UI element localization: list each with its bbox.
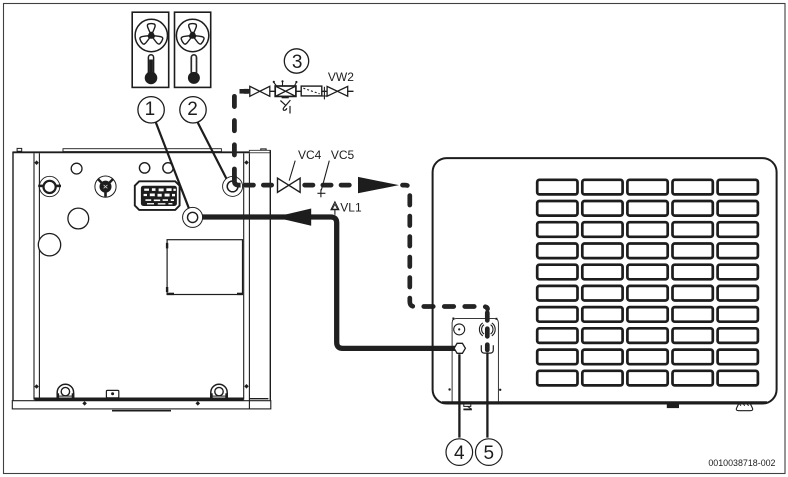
outdoor unit: connection panel [452,319,498,403]
indoor unit: two small circles top-middle [139,163,173,173]
callout circle 3 [284,49,308,73]
measuring tick after check valve [322,87,328,100]
valve VC4 [278,178,301,192]
air vent symbol VL1 [331,202,339,215]
callout line 4 [458,354,460,437]
indoor unit: wall screw diamonds [34,160,248,389]
svg-text:3: 3 [292,52,303,73]
outdoor unit: black foot [667,404,679,408]
indoor unit: foot left [57,384,73,398]
label VW2 [328,70,354,84]
indoor unit: top-left notch [17,148,22,151]
indoor unit: bottom flange [12,401,271,409]
port 2 (heating return connection) [223,176,243,196]
indoor unit: left wall lines [34,153,39,399]
indoor unit: flange diamonds [82,401,200,406]
indoor unit: left outer edge [12,152,14,400]
sign box 1 (fan + thermometer warm) [132,12,169,87]
document number [708,458,775,468]
solid pipe (flow) [202,217,456,348]
pipe group 3: thick start stub [240,89,252,94]
svg-text:5: 5 [484,443,495,464]
flow arrow on dashed pipe (right) [358,177,399,193]
flow arrow on solid pipe (left) [275,209,312,226]
indoor unit: knurled knob [95,176,116,197]
fan icon 2 [176,19,208,51]
outdoor unit: bottom edge accent [442,401,767,404]
sign box 2 (fan + thermometer cold) [175,12,211,87]
svg-text:0010038718-002: 0010038718-002 [708,458,775,468]
outdoor unit: round port with dot [454,324,465,335]
drain symbol under filter [280,100,290,113]
valve VW2 [327,86,348,96]
indoor unit: right panel handle [261,149,266,150]
indoor unit: right panel top [249,150,270,153]
leader line 1 [156,122,191,214]
indoor unit: foot right [211,384,227,398]
port 1 (heating flow connection) [183,207,203,227]
indoor unit: capped port with tabs [38,176,61,196]
indoor unit: top cap strip [63,149,221,152]
callout line 5 [486,353,488,437]
leader line 2 [198,122,230,184]
label VL1 [340,200,362,214]
indoor unit: top edge [12,151,249,153]
dashed pipe: arrow to outdoor unit [403,185,488,309]
label VC4 [289,148,321,181]
indoor unit: large circle lower-left [38,234,60,256]
indoor unit: medium circle [68,208,89,229]
indoor unit: bottom thick edge [35,398,244,401]
outdoor unit body [433,158,777,403]
indoor unit: inner rectangle panel [167,240,242,295]
dashed pipe: port 2 to VC4 [241,183,278,188]
hex fitting at solid pipe end [454,343,465,353]
svg-text:VL1: VL1 [340,200,362,214]
dashed pipe: corner into port 2 [234,176,240,185]
svg-text:1: 1 [145,99,156,120]
svg-text:VC4: VC4 [298,148,322,162]
outdoor unit: slat grille [537,180,758,386]
outdoor unit: adjustable foot [736,404,752,411]
measuring point VC5 cross [317,189,325,197]
fan icon 1 [135,19,167,51]
callout circle 4 [446,439,473,466]
valve (group 3 left shutoff) [250,86,270,96]
svg-text:4: 4 [454,443,465,464]
indoor unit: right wall lines [244,153,269,408]
indoor unit: electrical connector [135,181,180,210]
filter / dirt trap [273,80,298,98]
callout circle 2 [180,97,206,123]
u-clamp under grommet [481,345,493,353]
svg-text:VC5: VC5 [331,148,355,162]
grommet dash overlay [485,310,490,350]
outdoor unit: drain mark [463,404,472,410]
dashed pipe: drop from group 3 to port 2 [234,91,248,177]
svg-text:VW2: VW2 [328,70,354,84]
dashed pipe: VC4 to arrow [302,183,358,188]
outdoor unit: panel screws [448,318,501,391]
pipe group 3: thin line [250,90,354,92]
indoor unit: small circle top-left [71,163,82,174]
callout circle 5 [476,439,503,466]
svg-text:2: 2 [187,99,198,120]
callout circle 1 [138,97,164,123]
check valve (flap) [301,86,322,96]
indoor unit: right outer edge [269,150,271,400]
thermometer 2 (empty) [188,55,200,84]
outdoor unit: grommet port [479,323,495,336]
thermometer 1 (filled) [145,55,158,84]
label VC5 + leader [321,148,354,190]
indoor unit: bottom screw box [106,390,118,397]
indoor unit: bottom tab [112,410,171,412]
